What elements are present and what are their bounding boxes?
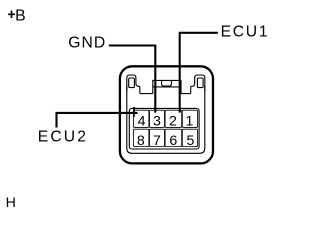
latch bar	[153, 80, 181, 93]
inner outline top segment right	[181, 93, 191, 95]
svg-text:ECU2: ECU2	[38, 128, 88, 145]
right guide slot inner	[197, 78, 203, 88]
wire GND leader	[109, 46, 156, 113]
svg-text:3: 3	[153, 113, 161, 129]
connector outer shell	[120, 66, 213, 163]
svg-text:7: 7	[153, 133, 161, 149]
svg-text:1: 1	[186, 113, 194, 129]
pin 4 cell	[133, 110, 149, 127]
svg-text:5: 5	[187, 133, 195, 149]
svg-text:H: H	[6, 195, 16, 211]
wire ECU2 leader	[57, 113, 138, 128]
latch bar bottom edge	[153, 86, 181, 88]
pin 1 cell	[182, 110, 197, 127]
wire ECU1 leader	[180, 33, 218, 113]
pin 3 cell	[150, 110, 165, 127]
inner outline top segment left	[140, 93, 153, 95]
pin 8 cell	[133, 129, 149, 146]
connector inner outline (sides and bottom)	[127, 86, 205, 153]
svg-text:ECU1: ECU1	[221, 24, 270, 41]
svg-text:GND: GND	[68, 35, 106, 52]
svg-text:4: 4	[138, 113, 146, 129]
right guide slot outer	[191, 75, 205, 94]
label +B	[8, 11, 15, 18]
svg-text:2: 2	[169, 113, 177, 129]
terminal tick at pin 4	[133, 107, 135, 117]
pin 5 cell	[182, 129, 197, 146]
pin grid box	[129, 108, 199, 149]
svg-text:6: 6	[169, 133, 177, 149]
left guide slot inner	[129, 78, 135, 88]
left guide slot outer	[127, 75, 140, 94]
pin 6 cell	[165, 129, 182, 146]
latch tab	[162, 80, 172, 86]
pin 7 cell	[150, 129, 165, 146]
svg-text:8: 8	[137, 133, 145, 149]
svg-text:B: B	[15, 8, 26, 25]
pin 2 cell	[165, 110, 182, 127]
